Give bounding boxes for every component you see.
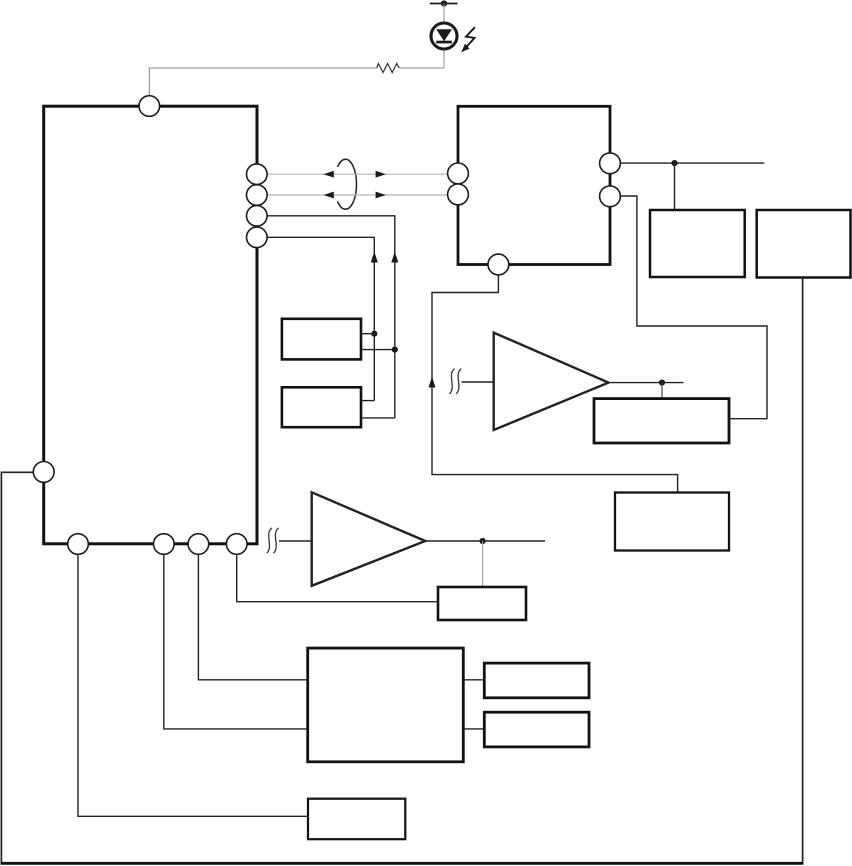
box A2 (lower small box left) (282, 387, 361, 427)
wire U1 bottom pin2 to box F (164, 552, 308, 729)
box C (under upper amp) (594, 399, 729, 443)
stub box A2 out 1 (361, 400, 374, 402)
box G1 (484, 663, 589, 698)
box D (615, 493, 729, 551)
box B2 (757, 210, 851, 278)
box B1 (650, 210, 745, 277)
pin circle U1 bottom 4 (226, 534, 247, 555)
pin circle U1 right 1 (246, 164, 267, 185)
wire U1 bottom pin3 to box F (198, 552, 307, 680)
junction dot (671, 160, 677, 166)
stub box F to box G1 (463, 679, 484, 681)
junction dot (659, 380, 665, 386)
pin circle U1 bottom 2 (154, 534, 175, 555)
op-amp U4 (lower amplifier) (312, 492, 426, 586)
bottom rail (1, 862, 804, 865)
LED D1 (431, 23, 457, 49)
box G2 (484, 712, 589, 747)
pin circle U1 right 3 (246, 206, 267, 227)
box F (bottom center block) (308, 648, 464, 762)
junction dot (480, 538, 486, 544)
junction dot (392, 347, 398, 353)
pin circle U1 top (139, 96, 160, 117)
wire U2 right pin2 to box C right side (620, 196, 767, 419)
wire amp U3 input (462, 381, 494, 383)
wire amp U4 input (279, 540, 312, 542)
wire U1 bottom pin1 to box H (78, 552, 308, 816)
twisted pair wire B (262, 194, 452, 196)
box H (bottom small box) (308, 799, 405, 840)
wire U1 left pin ground loop (1, 472, 34, 863)
box A1 (upper small box left) (282, 319, 361, 360)
op-amp U3 (upper amplifier) (494, 333, 609, 430)
pin circle U2 right 1 (600, 153, 621, 174)
pin circle U1 left (33, 462, 54, 483)
power rail top (430, 3, 458, 5)
squiggle source marker (267, 528, 279, 553)
arrow up on pin4 vertical (371, 252, 378, 263)
transceiver block U2 (458, 106, 610, 264)
resistor R1 (377, 64, 399, 73)
wire dot to box C (661, 383, 663, 399)
junction dot on power rail (441, 0, 447, 6)
arrow up on pin3 vertical (391, 252, 398, 263)
squiggle source marker (450, 369, 462, 394)
pin circle U1 right 4 (246, 227, 267, 248)
stub box A2 out 2 (361, 417, 395, 419)
arrows on pair: right pair (376, 171, 386, 178)
right rail to box B2 (802, 278, 804, 864)
twisted pair loop (335, 159, 357, 209)
arrows on pair: left pair (324, 171, 334, 178)
wire pin4 net (262, 237, 374, 400)
wire U2 right pin1 net (620, 162, 764, 164)
stub box A1 out 2 (361, 349, 395, 351)
wire junction to box B1 (674, 163, 676, 210)
wire resistor to top pin (149, 68, 376, 96)
wire from LED to resistor (399, 67, 444, 69)
box E (438, 587, 526, 620)
pin circle U1 right 2 (246, 185, 267, 206)
pin circle U2 left 1 (448, 163, 469, 184)
pin circle U2 bottom (488, 254, 509, 275)
wire U1 bottom pin4 to box E (237, 552, 438, 602)
stub box F to box G2 (463, 728, 484, 730)
twisted pair wire A (262, 173, 452, 175)
pin circle U1 bottom 3 (188, 534, 209, 555)
wire U2 bottom pin to box D top (432, 275, 678, 493)
stub box A1 out 1 (361, 333, 374, 335)
wire amp U3 output (608, 382, 684, 384)
wire dot to box E (482, 541, 484, 587)
arrow up on vertical (429, 377, 436, 388)
pin circle U2 right 2 (600, 186, 621, 207)
light emission arrow (461, 27, 475, 52)
wire LED anode (443, 4, 445, 69)
pin circle U1 bottom 1 (68, 534, 89, 555)
junction dot (371, 331, 377, 337)
pin circle U2 left 2 (448, 184, 469, 205)
IC U1 main block (44, 106, 257, 544)
wire pin3 net (262, 216, 395, 418)
wire amp U4 output (425, 540, 545, 542)
